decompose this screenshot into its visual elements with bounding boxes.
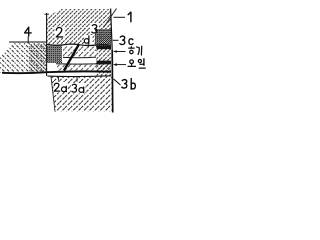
needle (thick diagonal): [64, 45, 79, 71]
label 3b: [122, 79, 136, 90]
diagonal stroke at top of wall: [104, 9, 117, 28]
dense patch left of middle section: [47, 46, 62, 64]
thick wavy line y72 across bar and middle: [2, 71, 111, 73]
leader of 3b: [114, 79, 121, 85]
leader of 1: [114, 16, 126, 18]
label d: [84, 36, 89, 43]
top line of bottom block y76: [48, 75, 112, 78]
white gap around label d: [84, 35, 93, 44]
middle wall strip hatch: [96, 45, 111, 76]
top hatched block (part 2/3 body): [47, 9, 111, 45]
sparse hatch middle lower band: [57, 65, 111, 72]
white gap around label 2: [55, 27, 65, 39]
wall right edge vertical line: [111, 9, 113, 51]
leader of 3c: [113, 39, 119, 41]
label 3c: [120, 36, 133, 44]
sparse hatch middle upper band: [63, 46, 96, 57]
tick of 3a: [76, 77, 78, 82]
top block left edge line: [46, 13, 48, 76]
bottom hatched block: [51, 77, 112, 112]
tick of 2a: [58, 77, 60, 81]
korean text o-il (oil): [128, 59, 145, 68]
label 2a: [54, 83, 66, 92]
bottom block left slant edge: [51, 77, 55, 112]
passage line y63: [56, 62, 111, 65]
left bar dense right end: [29, 44, 47, 72]
label 3: [92, 25, 97, 33]
air channel dark bar: [97, 46, 112, 49]
left bar top edge: [9, 41, 47, 43]
d tick: [87, 44, 89, 48]
white gap label 2a: [54, 82, 68, 93]
white wedge top-left of block: [47, 9, 61, 17]
white gap label 3a: [71, 83, 86, 94]
left edge top serif: [45, 13, 50, 15]
label 1: [128, 12, 131, 22]
oil channel dark bar: [97, 61, 112, 65]
label 4: [25, 27, 32, 36]
korean text gong-gi (air): [129, 46, 142, 55]
left bar (part 4) hatch: [0, 43, 47, 73]
passage line y57: [63, 56, 96, 59]
white gap around label 3: [90, 23, 99, 34]
label 2: [56, 28, 63, 37]
label 3a: [72, 84, 84, 92]
oil arrow: [115, 64, 127, 66]
leader tick of 4: [27, 37, 29, 44]
background: [0, 0, 160, 120]
dense scribble patch right wall upper: [95, 29, 111, 46]
bottom edge of top block (wavy): [47, 44, 111, 45]
air arrow: [115, 51, 126, 53]
